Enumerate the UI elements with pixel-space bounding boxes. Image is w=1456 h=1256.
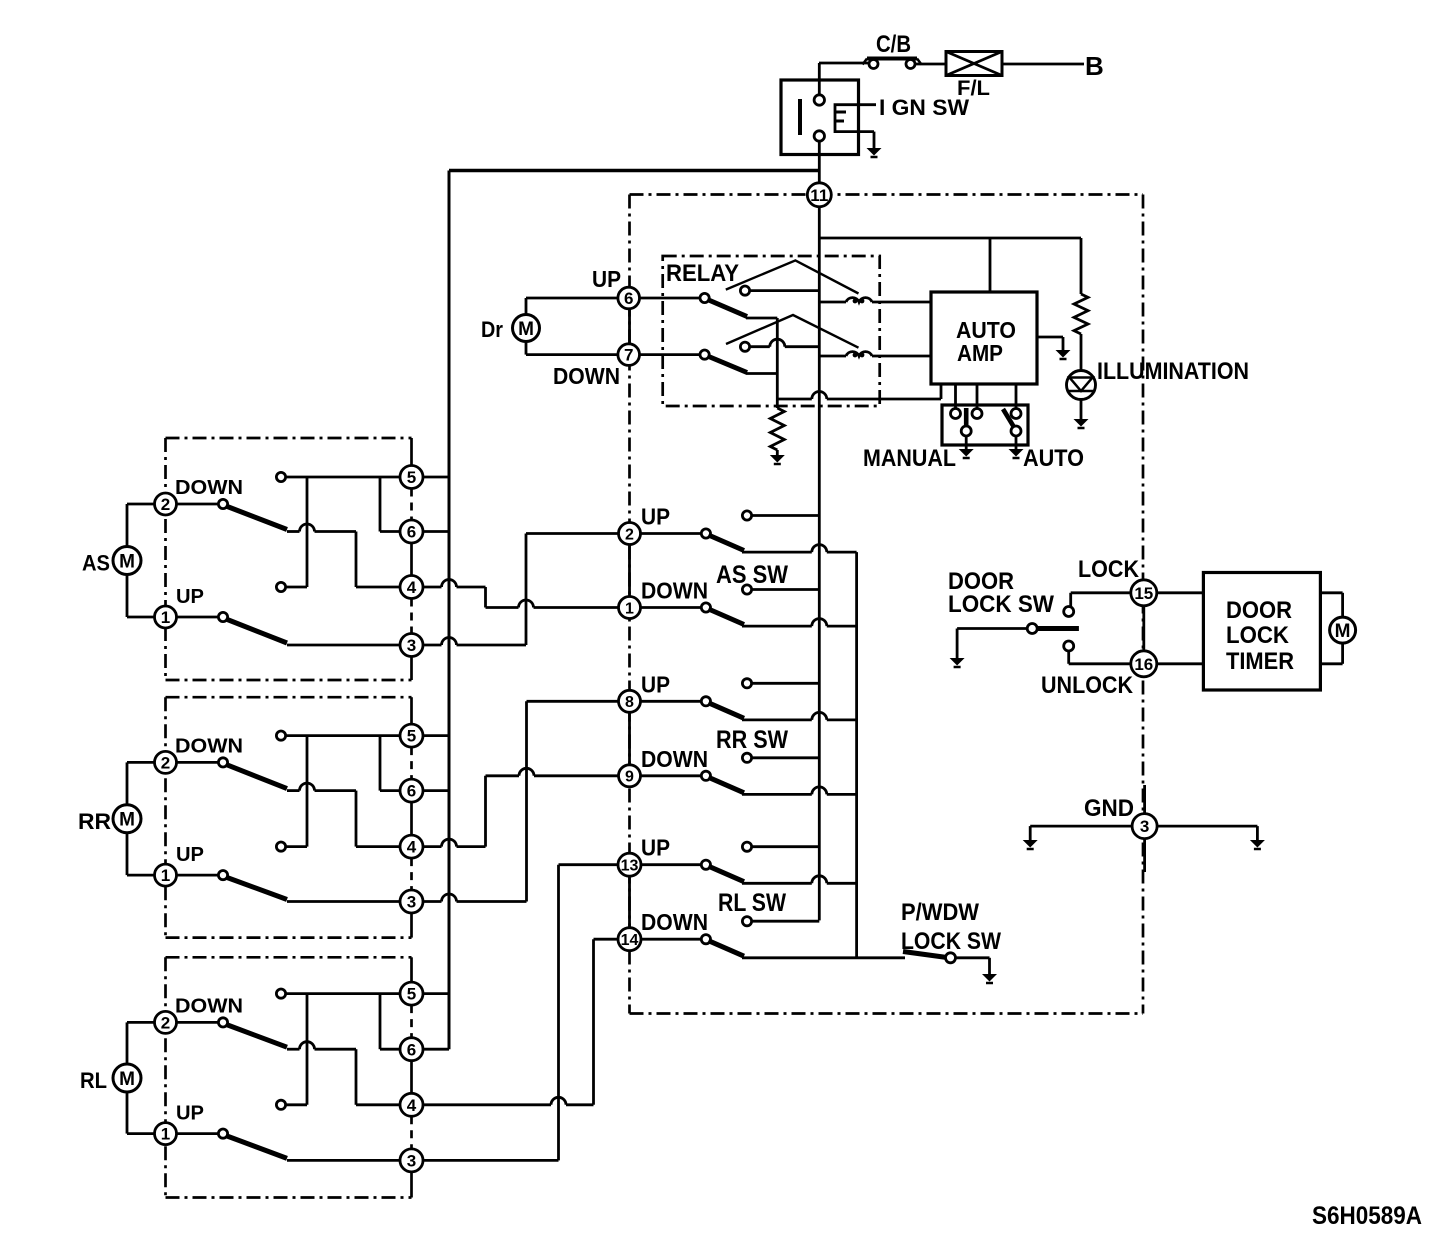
- wire down blade to jog (AS): [287, 530, 300, 533]
- connector pin 3 (GND): [1132, 814, 1157, 839]
- wire C/B to F/L: [915, 63, 946, 66]
- wire timer to door lock motor (bottom): [1321, 662, 1343, 665]
- wire auto amp right pin: [1037, 336, 1063, 339]
- switch common vertical wire: [855, 552, 858, 958]
- svg-text:UP: UP: [641, 835, 670, 861]
- resistor relay common: [770, 408, 784, 450]
- svg-text:RR: RR: [78, 809, 111, 834]
- motor group RL dashed box top edge: [166, 956, 412, 959]
- wire jog to pin4 (RR): [356, 845, 401, 848]
- wire auto amp bottom pin 1: [940, 384, 943, 399]
- wire pin6 to relay contact: [640, 297, 701, 300]
- svg-text:LOCK: LOCK: [1078, 556, 1140, 583]
- wire up blade to pin3 (RR): [287, 900, 401, 903]
- wire tap down to pin6 row (AS): [379, 477, 382, 532]
- svg-text:DOWN: DOWN: [175, 477, 243, 499]
- connector dashed link pin4-pin3 (RL): [410, 1116, 413, 1149]
- connector pin 1 (RR): [155, 864, 177, 886]
- up switch pivot contact (RR): [218, 871, 227, 880]
- window motor RR M: [113, 805, 141, 833]
- relay coil upper: [846, 298, 872, 304]
- connector pin 15: [1131, 580, 1157, 606]
- wire door lock switch to ground: [957, 627, 1028, 630]
- svg-text:TIMER: TIMER: [1226, 648, 1294, 675]
- upper fixed contact (RR): [276, 731, 285, 740]
- svg-text:5: 5: [407, 468, 416, 487]
- wire battery feed horizontal to C/B: [819, 62, 868, 65]
- svg-text:15: 15: [1134, 584, 1153, 603]
- wire pin6 to Dr motor: [525, 298, 528, 315]
- link pin2-pin1: [628, 545, 631, 597]
- wire tap down to lower contact row (AS): [306, 477, 309, 587]
- up switch blade (RL): [226, 1136, 287, 1159]
- wire pin2 to down contact (AS): [177, 503, 220, 506]
- svg-text:1: 1: [161, 608, 170, 627]
- circuit breaker C/B symbol: [869, 60, 878, 69]
- ground below door lock switch: [950, 658, 965, 667]
- motor group RR box edge pin3 to bottom: [410, 913, 413, 938]
- svg-text:AUTO: AUTO: [1023, 445, 1084, 472]
- relay fixed contact upper: [740, 286, 749, 295]
- motor group AS dashed box left edge: [164, 438, 167, 680]
- wire lower contact to pin16: [1067, 651, 1070, 664]
- wire lower contact stub (RR): [285, 845, 307, 848]
- svg-text:UP: UP: [176, 1103, 204, 1125]
- up switch pivot contact (AS): [218, 612, 227, 621]
- down switch blade (AS): [226, 506, 287, 530]
- connector node 11: [807, 183, 831, 207]
- wire relay common to auto amp pin with hop: [777, 398, 812, 401]
- wire lamp to ground: [1080, 400, 1083, 420]
- ground below IGN SW: [867, 148, 882, 157]
- auto amp box: [931, 292, 1037, 384]
- wire blade tip to common (RR DOWN): [742, 793, 812, 796]
- switch blade (RL UP): [709, 866, 745, 882]
- wire RR pin3 to switch pin8 (hop bus, jog up): [423, 900, 442, 903]
- motor group AS box edge pin3 to bottom: [410, 657, 413, 681]
- wire RL pin4 to switch pin14 (hop, jog up): [423, 1103, 551, 1106]
- svg-text:AS: AS: [82, 551, 110, 576]
- wire fixed contact to bus (RL DOWN): [751, 920, 819, 923]
- down switch pivot contact (RL): [218, 1018, 227, 1027]
- door lock fixed contact lower: [1064, 641, 1074, 651]
- manual switch blade: [964, 408, 969, 427]
- ground below relay resistor: [770, 455, 785, 464]
- svg-text:2: 2: [625, 526, 634, 543]
- wire tap to pin6 (RL): [380, 1048, 401, 1051]
- illumination lamp: [1067, 371, 1096, 400]
- wire pin1 to up contact (RL): [177, 1132, 220, 1135]
- connector pin 4 (RR): [400, 835, 423, 858]
- relay blade lower: [708, 356, 748, 373]
- wire jog down to pin4 row (RR): [355, 791, 358, 847]
- wire blade tip to common (RL UP): [742, 882, 812, 885]
- svg-text:9: 9: [625, 769, 634, 786]
- svg-text:UP: UP: [641, 671, 670, 697]
- relay dashed box: [663, 256, 880, 406]
- connector pin 6 (RR): [400, 779, 423, 802]
- switch fixed contact (RL UP): [742, 842, 751, 851]
- ground at auto amp right pin: [1056, 350, 1071, 359]
- svg-text:5: 5: [407, 985, 416, 1004]
- connector pin 9 (main switch): [619, 765, 641, 787]
- wire fixed contact to bus (RR UP): [751, 682, 819, 685]
- wire pin 8 to switch contact: [641, 700, 702, 703]
- svg-text:RELAY: RELAY: [666, 260, 739, 287]
- svg-text:14: 14: [621, 932, 639, 949]
- switch pivot contact (RL DOWN): [701, 935, 710, 944]
- wire RR motor to pin2: [126, 762, 129, 804]
- wire relay fixed contact lower to bus with hop: [749, 345, 770, 348]
- connector pin 3 (RR): [400, 890, 423, 913]
- wire pin 9 to switch contact: [641, 774, 702, 777]
- wire fixed contact to bus (AS UP): [751, 514, 819, 517]
- wire blade tip to common (AS DOWN): [742, 625, 812, 628]
- wire tap down to pin6 row (RL): [379, 994, 382, 1050]
- wire fixed contact to bus (AS DOWN): [751, 588, 819, 591]
- resistor illumination: [1074, 294, 1088, 334]
- svg-text:UP: UP: [176, 586, 204, 608]
- wire blade tip to common (AS UP): [742, 551, 812, 554]
- connector pin 3 (RL): [400, 1149, 423, 1172]
- connector link pin6-pin4 (RR): [410, 802, 413, 835]
- svg-text:1: 1: [161, 1125, 170, 1144]
- ground below p/wdw lock switch: [982, 974, 997, 983]
- wire blade tip to P/WDW lock switch (RL DOWN): [742, 956, 905, 959]
- svg-text:6: 6: [407, 523, 416, 542]
- relay armature lever upper: [726, 260, 859, 293]
- svg-text:6: 6: [624, 289, 633, 308]
- wire relay blade upper output: [746, 317, 777, 320]
- lower fixed contact (AS): [276, 582, 285, 591]
- motor group RL dashed box bottom edge: [166, 1196, 412, 1199]
- down switch pivot contact (AS): [218, 499, 227, 508]
- main switch assembly dashed box bottom edge: [630, 1012, 1144, 1015]
- fusible link F/L box with X: [946, 52, 1002, 76]
- svg-text:3: 3: [407, 1152, 416, 1171]
- manual switch fixed contact a: [951, 409, 961, 419]
- connector pin 6 (AS): [400, 520, 423, 543]
- connector pin 2 (main switch): [619, 523, 641, 545]
- ground left of pin 3: [1023, 840, 1038, 849]
- manual switch movable contact: [961, 426, 971, 436]
- svg-text:LOCK: LOCK: [1226, 622, 1290, 649]
- wire pin7 to relay contact: [640, 353, 701, 356]
- svg-text:8: 8: [625, 694, 634, 711]
- wire tap down to lower contact row (RL): [306, 994, 309, 1105]
- lower fixed contact (RR): [276, 842, 285, 851]
- door lock timer box: [1203, 573, 1320, 691]
- switch pivot contact (AS UP): [701, 529, 710, 538]
- svg-text:C/B: C/B: [876, 31, 911, 58]
- svg-text:DOWN: DOWN: [641, 578, 708, 604]
- wire p/wdw switch to ground: [955, 956, 990, 959]
- wire stub below pin 3: [1143, 838, 1146, 872]
- relay blade upper: [708, 300, 748, 317]
- wire pin 1 to switch contact: [641, 606, 702, 609]
- svg-text:DOWN: DOWN: [553, 363, 620, 389]
- wire timer to door lock motor (top): [1321, 591, 1343, 594]
- ignition switch IGN SW box: [781, 80, 859, 155]
- connector pin 7: [618, 344, 640, 366]
- wire F/L to B terminal: [1002, 63, 1084, 66]
- svg-text:AMP: AMP: [957, 340, 1003, 366]
- manual switch fixed contact b: [972, 409, 982, 419]
- wire blade tip to common (RR UP): [742, 719, 812, 722]
- door lock fixed contact upper: [1064, 607, 1074, 617]
- svg-text:M: M: [119, 551, 135, 572]
- window motor AS M: [113, 547, 141, 575]
- svg-text:M: M: [119, 810, 135, 831]
- svg-text:GND: GND: [1084, 795, 1134, 822]
- ground below auto switch: [1009, 449, 1024, 458]
- relay coil lower: [846, 352, 872, 358]
- svg-text:7: 7: [624, 346, 633, 365]
- connector dashed link pin5-pin6 (AS): [410, 489, 413, 521]
- svg-text:5: 5: [407, 727, 416, 746]
- motor group RL dashed box left edge: [164, 957, 167, 1197]
- wire fixed contact to bus (RR DOWN): [751, 756, 819, 759]
- connector pin 2 (RL): [155, 1011, 177, 1033]
- motor group RR dashed box bottom edge: [166, 936, 412, 939]
- wire jog down to pin4 row (RL): [355, 1049, 358, 1105]
- connector pin 4 (RL): [400, 1093, 423, 1116]
- ground below manual switch: [959, 449, 974, 458]
- manual/auto switch box: [942, 405, 1028, 445]
- connector pin 5 (RL): [400, 982, 423, 1005]
- svg-text:3: 3: [1140, 817, 1149, 836]
- wire relay coil upper to auto amp: [872, 301, 931, 304]
- IGN SW contact pin lower: [814, 131, 824, 141]
- svg-text:6: 6: [407, 1040, 416, 1059]
- connector link pin6-pin4 (AS): [410, 543, 413, 576]
- relay contact pivot lower: [700, 350, 709, 359]
- wire resistor to lamp: [1080, 334, 1083, 378]
- connector pin 8 (main switch): [619, 690, 641, 712]
- connector dashed link pin5-pin6 (RL): [410, 1005, 413, 1038]
- motor group RR box edge to pin5: [410, 697, 413, 724]
- svg-text:P/WDW: P/WDW: [901, 899, 979, 926]
- wire up blade to pin3 (RL): [287, 1159, 401, 1162]
- wire lower contact stub (AS): [285, 586, 307, 589]
- window motor RL M: [113, 1064, 141, 1092]
- wire bus to illumination branch (top): [819, 237, 1081, 240]
- wire RL motor to pin1: [126, 1092, 129, 1134]
- wire lower contact stub (RL): [285, 1103, 307, 1106]
- motor group RR dashed box top edge: [166, 696, 412, 699]
- svg-text:DOOR: DOOR: [1226, 597, 1292, 624]
- wire RL motor to pin2: [126, 1022, 129, 1064]
- wire tap down to lower contact row (RR): [306, 736, 309, 847]
- wire auto amp bottom pin 3: [976, 384, 979, 409]
- connector dashed link pin4-pin3 (AS): [410, 599, 413, 634]
- svg-text:M: M: [518, 319, 534, 340]
- connector pin 13 (main switch): [618, 853, 641, 876]
- svg-text:S6H0589A: S6H0589A: [1312, 1202, 1422, 1230]
- wire auto amp top pin: [989, 238, 992, 292]
- upper fixed contact (AS): [276, 472, 285, 481]
- wire pin7 to Dr motor: [525, 342, 528, 355]
- power bus vertical from node 11 (right): [818, 207, 821, 920]
- wire to illumination resistor: [1080, 238, 1083, 294]
- link pin6-pin7: [628, 309, 631, 344]
- wire pin15 to door lock timer: [1157, 591, 1204, 594]
- switch fixed contact (AS DOWN): [742, 585, 751, 594]
- p/wdw lock switch pivot contact: [946, 953, 956, 963]
- wire AS pin3 to switch pin2 (hop bus, jog up): [423, 644, 442, 647]
- wire pin5 to bus (RL): [423, 992, 449, 995]
- IGN SW wiper bracket: [835, 105, 876, 132]
- switch blade (RR DOWN): [709, 777, 745, 793]
- main switch assembly dashed box right edge: [1142, 195, 1145, 1014]
- wire junction y170 to left bus: [449, 169, 819, 172]
- svg-text:2: 2: [161, 495, 170, 514]
- connector pin 4 (AS): [400, 576, 423, 599]
- wire IGN SW lower pin down to node 11: [818, 141, 821, 184]
- wire down blade to jog (RR): [287, 789, 300, 792]
- wire gnd right: [1158, 825, 1258, 828]
- svg-text:UP: UP: [641, 504, 670, 530]
- svg-text:6: 6: [407, 782, 416, 801]
- wire pin5 to bus (AS): [423, 476, 449, 479]
- connector pin 5 (AS): [400, 466, 423, 489]
- auto switch fixed contact: [1011, 409, 1021, 419]
- svg-text:Dr: Dr: [481, 317, 503, 342]
- wire relay fixed contact upper to bus: [749, 289, 819, 292]
- motor group RL box edge to pin5: [410, 957, 413, 982]
- connector pin 6: [618, 287, 640, 309]
- svg-text:3: 3: [407, 893, 416, 912]
- svg-text:RL: RL: [80, 1068, 107, 1093]
- motor group AS box edge to pin5: [410, 438, 413, 466]
- motor group AS dashed box top edge: [166, 437, 412, 440]
- wire stub above pin 3: [1143, 785, 1146, 814]
- link pin15-pin16: [1142, 606, 1145, 651]
- p/wdw lock switch blade: [903, 952, 947, 958]
- IGN SW internal bar: [798, 99, 802, 135]
- wire pin6 to bus (RL): [423, 1048, 449, 1051]
- wire tap to pin6 (AS): [380, 530, 401, 533]
- svg-text:B: B: [1085, 51, 1104, 81]
- upper fixed contact (RL): [276, 989, 285, 998]
- door lock switch blade: [1032, 626, 1079, 631]
- lower fixed contact (RL): [276, 1100, 285, 1109]
- up switch blade (RR): [226, 877, 287, 899]
- relay contact pivot upper: [700, 293, 709, 302]
- svg-text:13: 13: [621, 857, 639, 874]
- wire down blade to jog (RL): [287, 1048, 300, 1051]
- svg-text:16: 16: [1134, 655, 1153, 674]
- wire pin16 to door lock timer: [1157, 662, 1204, 665]
- wire auto amp bottom pin 2: [954, 384, 957, 409]
- connector pin 1 (AS): [155, 606, 177, 628]
- wire up blade to pin3 (AS): [287, 644, 401, 647]
- svg-text:M: M: [1335, 621, 1351, 642]
- wire relay blade lower output: [746, 372, 777, 375]
- wire battery vertical into IGN SW: [818, 63, 821, 95]
- wire resistor to ground: [776, 399, 779, 408]
- wire AS pin4 to switch pin1 (hop bus, jog): [423, 586, 442, 589]
- svg-text:MANUAL: MANUAL: [863, 445, 956, 472]
- svg-text:LOCK SW: LOCK SW: [948, 591, 1054, 618]
- wire tap down to pin6 row (RR): [379, 736, 382, 791]
- switch blade (AS UP): [709, 535, 745, 551]
- svg-text:4: 4: [407, 578, 417, 597]
- svg-text:DOWN: DOWN: [175, 995, 243, 1017]
- up switch pivot contact (RL): [218, 1129, 227, 1138]
- wire fixed contact to bus (RL UP): [751, 845, 819, 848]
- wire gnd left: [1030, 825, 1131, 828]
- switch blade (RR UP): [709, 703, 745, 719]
- wire upper contact to pin5 (RR): [285, 734, 400, 737]
- wire upper contact to pin5 (RL): [285, 992, 400, 995]
- connector pin 2 (RR): [155, 751, 177, 773]
- svg-text:M: M: [119, 1069, 135, 1090]
- connector pin 1 (main switch): [619, 597, 641, 619]
- wire pin2 to down contact (RL): [177, 1021, 220, 1024]
- wire manual contact to ground: [965, 436, 968, 450]
- link pin8-pin9: [628, 712, 631, 765]
- wire tap to pin6 (RR): [380, 789, 401, 792]
- connector dashed link pin5-pin6 (RR): [410, 747, 413, 779]
- switch pivot contact (RL UP): [701, 860, 710, 869]
- wire pin 13 to switch contact: [641, 863, 702, 866]
- svg-text:DOWN: DOWN: [175, 735, 243, 757]
- connector pin 16: [1131, 651, 1157, 677]
- wire pin6 to bus (RR): [423, 789, 449, 792]
- connector pin 5 (RR): [400, 724, 423, 747]
- svg-text:1: 1: [161, 866, 170, 885]
- down switch blade (RR): [226, 764, 287, 788]
- connector link pin6-pin4 (RL): [410, 1061, 413, 1094]
- auto switch blade: [1003, 409, 1015, 428]
- wire RR motor to pin1: [126, 833, 129, 875]
- svg-text:11: 11: [810, 186, 828, 205]
- wire relay common vertical: [776, 318, 779, 399]
- wire pin 2 to switch contact: [641, 532, 702, 535]
- motor group AS dashed box bottom edge: [166, 679, 412, 682]
- wire pin 14 to switch contact: [641, 938, 702, 941]
- wire relay coil lower to auto amp: [872, 355, 931, 358]
- svg-text:DOWN: DOWN: [641, 746, 708, 772]
- wire AS motor to pin2: [126, 504, 129, 547]
- wire IGN SW to ground: [873, 132, 876, 148]
- connector dashed link pin4-pin3 (RR): [410, 858, 413, 890]
- relay armature lever lower: [726, 315, 859, 348]
- IGN SW contact pin upper: [814, 95, 824, 105]
- svg-text:AS SW: AS SW: [716, 561, 788, 589]
- down switch pivot contact (RR): [218, 758, 227, 767]
- svg-text:UP: UP: [176, 844, 204, 866]
- main switch assembly dashed box left edge: [628, 195, 631, 1014]
- wire pin2 to down contact (RR): [177, 761, 220, 764]
- switch pivot contact (RR UP): [701, 697, 710, 706]
- svg-text:ILLUMINATION: ILLUMINATION: [1097, 358, 1249, 385]
- switch pivot contact (RR DOWN): [701, 771, 710, 780]
- door lock switch pivot contact: [1027, 624, 1037, 634]
- switch blade (RL DOWN): [709, 941, 745, 957]
- svg-text:I GN SW: I GN SW: [879, 95, 969, 120]
- svg-text:4: 4: [407, 1096, 417, 1115]
- wire auto contact to ground: [1015, 436, 1018, 450]
- svg-text:UP: UP: [592, 266, 621, 292]
- main window bus vertical (left): [448, 171, 451, 1050]
- motor group RR dashed box left edge: [164, 697, 167, 937]
- switch pivot contact (AS DOWN): [701, 603, 710, 612]
- wire bus to relay coil upper: [819, 301, 846, 304]
- wire jog down to pin4 row (AS): [355, 532, 358, 588]
- main switch assembly dashed box top edge: [630, 193, 1144, 196]
